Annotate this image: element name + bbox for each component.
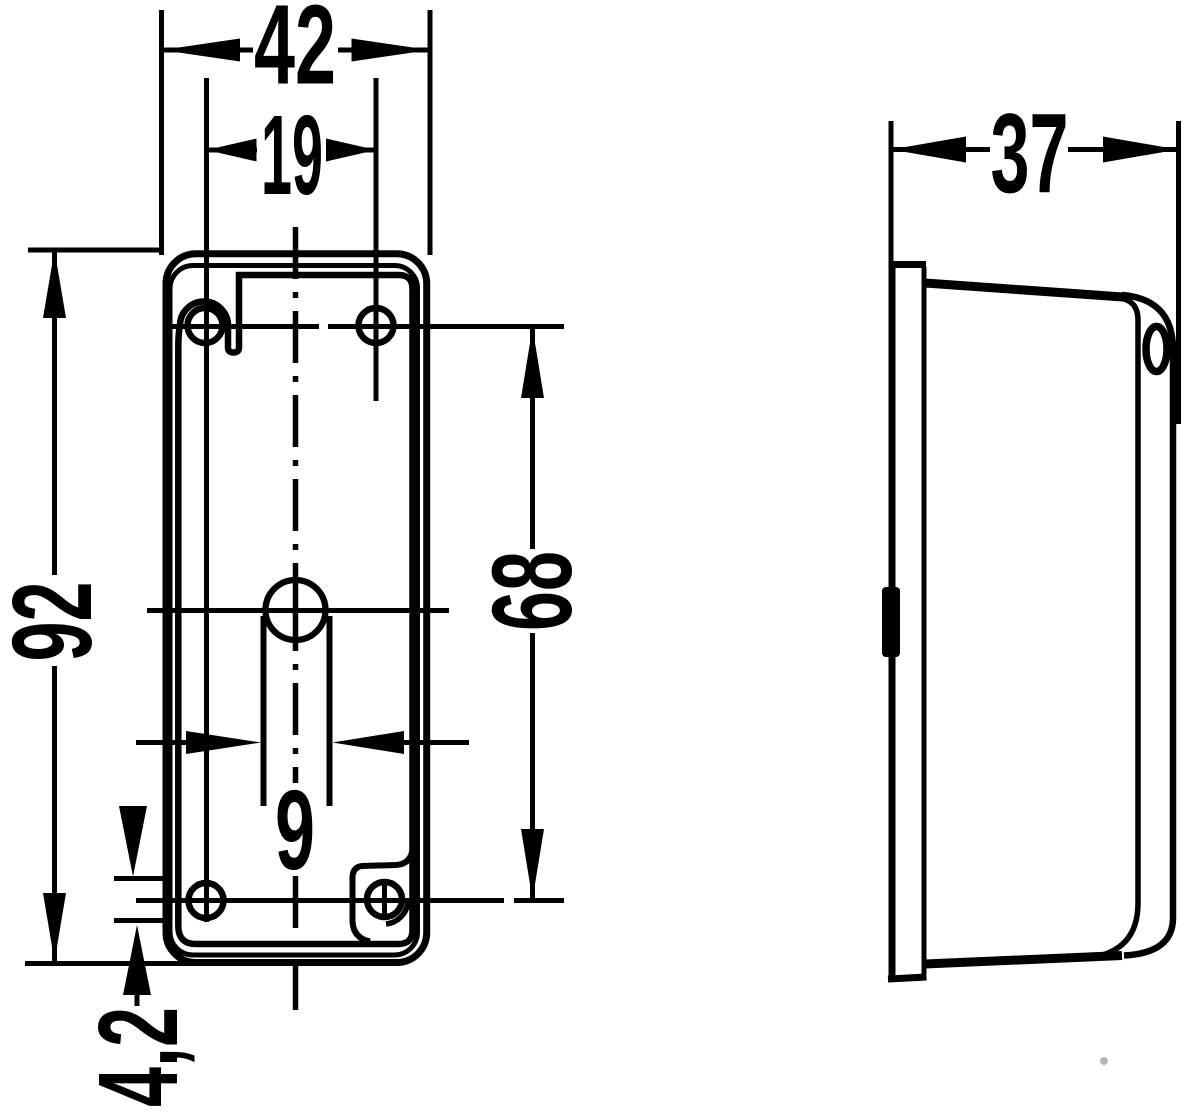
top holes centerline — [167, 324, 564, 329]
dimension 92: bottom arrow — [43, 893, 66, 962]
dimension 9: left line and arrow — [136, 740, 192, 745]
dimension 4.2: lower tangent tick — [114, 918, 168, 923]
side view: inner lens contour — [1088, 299, 1138, 958]
dimension 37: right arrow — [1103, 137, 1178, 163]
dimension 92: dimension line — [52, 250, 57, 575]
dimension 4.2: upper arrow — [119, 806, 147, 877]
dimension 92: top arrow — [43, 250, 66, 318]
central slot right edge — [327, 616, 333, 806]
side view: lamp bottom edge — [925, 956, 1122, 965]
dimension 37: right extension line — [1176, 121, 1181, 424]
vertical centerline dash-dot below circle — [293, 664, 299, 783]
side view: lamp top edge — [925, 283, 1130, 298]
svg-text:68: 68 — [469, 551, 595, 631]
side view: flange hole ellipse — [1146, 327, 1167, 372]
central mounting hole — [266, 580, 326, 640]
svg-text:9: 9 — [275, 767, 315, 893]
dimension 42: dimension line — [162, 48, 254, 53]
crosshair through bottom-right hole — [382, 880, 387, 918]
central hole centerline horizontal — [147, 608, 449, 613]
dimension 92: top extension line — [28, 248, 163, 253]
vertical centerline dash-dot lower — [293, 876, 299, 1010]
central slot left edge — [261, 616, 267, 806]
side view: flange right edge — [922, 267, 927, 974]
screw hole top-right — [359, 308, 394, 343]
dimension 37: left extension line — [889, 121, 894, 262]
dimension 19: left arrow — [207, 139, 257, 162]
dimension 9: right line and arrow — [398, 740, 469, 745]
dimension 68: dimension line — [530, 327, 535, 549]
front view: lens plate outline with screw recess top-left — [178, 275, 412, 944]
screw recess arc fragment bottom-right — [386, 903, 408, 924]
dimension 19: right arrow — [326, 139, 376, 162]
side view: flange top edge — [889, 261, 926, 268]
svg-text:4,2: 4,2 — [75, 1007, 201, 1107]
dimension 42: left arrow — [162, 39, 241, 62]
front view: inner rim outline — [170, 266, 418, 956]
dimension 4.2: upper tangent tick — [114, 876, 168, 881]
front view: outer housing outline — [166, 254, 427, 963]
vertical centerline solid through circle — [293, 570, 299, 651]
vertical centerline dash-dot upper — [293, 227, 299, 570]
side view: flange bottom edge — [888, 977, 927, 979]
side view: mounting flange left edge — [889, 261, 896, 981]
svg-text:92: 92 — [0, 582, 115, 662]
dimension 37: left arrow — [891, 137, 966, 163]
stray print dot — [1100, 1057, 1108, 1065]
crosshair through top-left hole — [204, 78, 209, 922]
side view: rubber grommet tab — [882, 587, 900, 657]
side view: outer right contour — [1122, 295, 1173, 956]
crosshair through top-right hole — [374, 78, 379, 401]
dimension 42: right arrow — [352, 39, 431, 62]
screw recess contour bottom-right — [353, 848, 413, 942]
svg-text:19: 19 — [261, 92, 323, 218]
dimension 42: left extension line — [159, 10, 164, 255]
dimension 42: right extension line — [428, 10, 433, 255]
screw hole bottom-right — [367, 882, 402, 917]
dimension 19: dimension line — [207, 148, 258, 153]
dimension 4.2: lower arrow — [123, 925, 151, 995]
dimension 92: bottom extension line — [25, 961, 395, 966]
dimension 68: top arrow — [521, 328, 544, 399]
screw hole top-left — [188, 308, 223, 343]
svg-text:37: 37 — [991, 90, 1069, 216]
screw hole bottom-left — [189, 883, 224, 918]
bottom holes centerline — [136, 898, 564, 903]
dimension 68: bottom arrow — [521, 829, 544, 900]
dimension 37: dimension line — [891, 147, 990, 152]
